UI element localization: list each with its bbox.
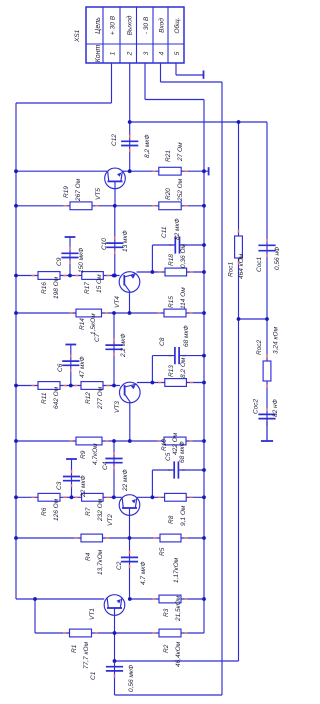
svg-text:R21: R21 [165,150,172,162]
svg-text:27 Ом: 27 Ом [177,142,184,162]
svg-text:198 Ом: 198 Ом [53,276,60,299]
svg-text:R16: R16 [41,282,48,294]
svg-text:Cос2: Cос2 [253,398,260,414]
svg-text:114 Ом: 114 Ом [180,287,187,309]
svg-text:C12: C12 [111,134,118,146]
svg-text:R19: R19 [63,186,70,198]
svg-text:126 Ом: 126 Ом [53,498,60,521]
svg-text:2: 2 [126,51,133,56]
svg-text:277 Ом: 277 Ом [97,386,104,410]
svg-text:22 мкФ: 22 мкФ [80,475,87,498]
svg-text:R13: R13 [168,365,175,377]
svg-text:68 мкФ: 68 мкФ [179,441,186,463]
svg-text:R12: R12 [85,392,92,404]
svg-text:R10: R10 [161,439,168,451]
svg-text:46,4кОм: 46,4кОм [175,641,182,667]
svg-text:R17: R17 [84,282,91,294]
svg-text:C4: C4 [102,461,109,470]
svg-text:R3: R3 [163,608,170,617]
svg-text:R7: R7 [85,507,92,516]
svg-text:Rос1: Rос1 [228,261,235,277]
svg-text:8,2 Ом: 8,2 Ом [180,357,187,378]
svg-text:XS1: XS1 [74,29,81,43]
svg-text:C2: C2 [116,561,123,570]
svg-text:15 Ом: 15 Ом [96,274,103,293]
svg-text:464 кОм: 464 кОм [238,253,245,279]
svg-text:C10: C10 [101,238,108,250]
svg-text:232 Ом: 232 Ом [97,498,104,522]
svg-text:0,56 мкФ: 0,56 мкФ [128,665,135,692]
svg-text:47 мкФ: 47 мкФ [79,356,86,378]
svg-text:68 мкФ: 68 мкФ [183,325,190,347]
svg-text:422 Ом: 422 Ом [172,432,179,455]
svg-text:R9: R9 [80,450,87,459]
svg-text:4,7кОм: 4,7кОм [92,443,99,465]
svg-text:2,2 мкФ: 2,2 мкФ [120,333,127,358]
svg-text:C8: C8 [159,337,166,346]
svg-text:21,5кОм: 21,5кОм [175,595,182,622]
svg-text:VT4: VT4 [114,296,121,308]
svg-text:150 мкФ: 150 мкФ [78,248,85,273]
svg-text:252 Ом: 252 Ом [177,178,184,202]
svg-text:Цепь: Цепь [95,17,102,34]
svg-text:C7: C7 [94,333,101,342]
svg-text:Cос1: Cос1 [256,256,263,272]
svg-text:22 мкФ: 22 мкФ [122,469,129,492]
svg-text:5: 5 [174,51,181,55]
svg-text:R1: R1 [71,644,78,653]
svg-text:VT1: VT1 [89,608,96,620]
svg-text:82 мкФ: 82 мкФ [174,218,181,240]
svg-text:R8: R8 [168,515,175,524]
svg-text:C5: C5 [165,452,172,461]
svg-text:0,36 Ом: 0,36 Ом [180,243,187,268]
svg-text:VT2: VT2 [107,514,114,526]
svg-text:+ 30 В: + 30 В [110,15,117,35]
svg-text:267 Ом: 267 Ом [75,178,82,202]
svg-text:Rос2: Rос2 [256,339,263,355]
svg-text:8,2 мкФ: 8,2 мкФ [144,134,151,158]
svg-text:3,24 кОм: 3,24 кОм [273,326,280,354]
svg-text:R18: R18 [168,254,175,266]
svg-text:C3: C3 [56,481,63,490]
svg-text:R20: R20 [165,188,172,200]
svg-text:R5: R5 [159,547,166,556]
svg-text:82 нФ: 82 нФ [272,399,279,417]
svg-text:3: 3 [143,51,150,55]
svg-text:R2: R2 [163,644,170,653]
svg-text:C6: C6 [57,363,64,372]
svg-text:Вход: Вход [158,18,166,33]
svg-text:Выход: Выход [125,15,133,35]
svg-text:0,56 нФ: 0,56 нФ [274,247,281,270]
svg-text:R14: R14 [79,318,86,330]
svg-text:R15: R15 [168,296,175,308]
svg-text:1: 1 [110,51,117,55]
svg-text:4,7 мкФ: 4,7 мкФ [140,561,147,585]
svg-text:VT5: VT5 [95,188,102,200]
svg-text:13,7кОм: 13,7кОм [97,549,104,575]
svg-text:R11: R11 [41,392,48,404]
svg-text:C11: C11 [161,226,168,238]
svg-text:4: 4 [159,51,166,55]
svg-text:VT3: VT3 [114,401,121,413]
svg-text:1,5кОм: 1,5кОм [90,313,97,335]
svg-text:9,1 Ом: 9,1 Ом [180,505,187,526]
svg-text:77,7 кОм: 77,7 кОм [83,641,90,669]
svg-text:1,17кОм: 1,17кОм [173,557,180,583]
svg-text:Конт: Конт [95,44,102,62]
svg-text:Общ.: Общ. [173,17,181,33]
svg-text:C1: C1 [90,671,97,680]
svg-text:- 30 В: - 30 В [143,16,150,34]
svg-text:C9: C9 [56,257,63,266]
svg-text:R4: R4 [85,552,92,561]
svg-text:R6: R6 [41,507,48,516]
svg-text:13 мкФ: 13 мкФ [122,230,129,252]
svg-text:642 Ом: 642 Ом [53,386,60,409]
